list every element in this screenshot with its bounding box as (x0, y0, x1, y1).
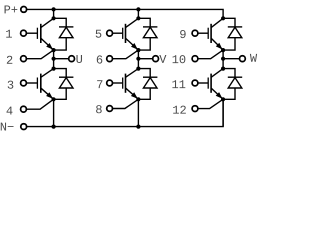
junction P+ rail / leg U (52, 7, 56, 11)
pin 3 label (8, 81, 14, 89)
pin 7 label (97, 80, 102, 88)
wire to terminal W (223, 58, 239, 60)
wire pin 6 to emitter node (113, 51, 138, 59)
label U (76, 55, 82, 63)
pin 8 terminal (emitter Q4) (107, 106, 113, 112)
pin 5 label (96, 30, 102, 38)
pin 4 terminal (emitter Q2) (21, 106, 27, 112)
wire phase U spine (53, 50, 55, 69)
terminal W (240, 56, 246, 62)
transistor Q5 (IGBT) (208, 18, 223, 50)
wire pin 5 to gate Q3 (113, 32, 123, 34)
pin 6 terminal (emitter Q3) (107, 56, 113, 62)
terminal N- (21, 124, 27, 130)
wire pin 7 to gate Q4 (113, 82, 123, 84)
terminal U (69, 56, 75, 62)
label V (159, 55, 166, 63)
junction emitter node Q5 / phase W (221, 48, 225, 52)
terminal P+ (21, 6, 27, 12)
pin 1 label (6, 30, 12, 38)
junction P+ rail / leg V (136, 7, 140, 11)
transistor Q3 (IGBT) (123, 18, 139, 50)
junction collector node Q5 (221, 16, 225, 20)
junction collector node Q4 (136, 67, 140, 71)
wire bottom rail rise leg W (222, 99, 224, 126)
diode D6 (freewheel) (223, 69, 242, 100)
transistor Q2 (IGBT) (37, 69, 53, 100)
pin 9 label (180, 30, 186, 38)
junction emitter node Q2 (52, 97, 56, 101)
terminal V (153, 56, 159, 62)
diode D2 (freewheel) (54, 69, 74, 100)
pin 10 terminal (emitter Q5) (192, 56, 198, 62)
pin 2 terminal (emitter Q1) (21, 56, 27, 62)
wire to terminal V (138, 58, 152, 60)
pin 1 terminal (gate Q1) (21, 30, 27, 36)
wire phase V spine (137, 50, 139, 69)
wire top rail drop leg U (53, 9, 55, 18)
wire P+ bus rail (27, 9, 224, 18)
pin 2 label (7, 56, 13, 64)
junction emitter node Q3 / phase V (136, 48, 140, 52)
wire pin 3 to gate Q2 (26, 82, 37, 84)
transistor Q1 (IGBT) (37, 18, 53, 50)
diode D3 (freewheel) (138, 18, 157, 50)
pin 11 label (172, 80, 185, 88)
wire pin 10 to emitter node (198, 51, 222, 59)
label P+ (5, 6, 18, 14)
wire top rail drop leg V (137, 9, 139, 18)
wire pin 9 to gate Q5 (198, 32, 208, 34)
junction phase U output tap (52, 57, 56, 61)
pin 7 terminal (gate Q4) (107, 80, 113, 86)
junction collector node Q2 (52, 67, 56, 71)
wire phase W spine (222, 50, 224, 69)
diode D1 (freewheel) (54, 18, 74, 50)
junction emitter node Q1 / phase U (52, 48, 56, 52)
pin 8 label (96, 105, 102, 113)
wire N- bus rail (27, 99, 224, 126)
junction phase V output tap (136, 57, 140, 61)
transistor Q4 (IGBT) (123, 69, 139, 100)
transistor Q6 (IGBT) (208, 69, 223, 100)
junction collector node Q1 (52, 16, 56, 20)
label N- (1, 123, 14, 131)
pin 4 label (7, 107, 13, 115)
junction collector node Q3 (136, 16, 140, 20)
wire bottom rail rise leg V (137, 99, 139, 126)
pin 5 terminal (gate Q3) (107, 30, 113, 36)
wire pin 1 to gate Q1 (26, 32, 37, 34)
junction collector node Q6 (221, 67, 225, 71)
wire pin 11 to gate Q6 (198, 82, 208, 84)
pin 3 terminal (gate Q2) (21, 80, 27, 86)
wire pin 2 to emitter node (26, 51, 52, 59)
pin 6 label (97, 55, 103, 63)
wire pin 4 to emitter node (26, 100, 52, 109)
wire to terminal U (54, 58, 69, 60)
pin 11 terminal (gate Q6) (192, 80, 198, 86)
wire pin 8 to emitter node (113, 100, 138, 109)
pin 9 terminal (gate Q5) (192, 30, 198, 36)
junction emitter node Q4 (136, 97, 140, 101)
diode D5 (freewheel) (223, 18, 242, 50)
junction N- rail / leg V (136, 125, 140, 129)
pin 10 label (173, 55, 186, 63)
label W (250, 54, 257, 62)
diode D4 (freewheel) (138, 69, 157, 100)
junction N- rail / leg U (52, 125, 56, 129)
wire pin 12 to emitter node (198, 100, 222, 109)
junction emitter node Q6 (221, 97, 225, 101)
pin 12 label (173, 106, 186, 114)
pin 12 terminal (emitter Q6) (192, 106, 198, 112)
wire bottom rail rise leg U (53, 99, 55, 126)
junction phase W output tap (221, 57, 225, 61)
